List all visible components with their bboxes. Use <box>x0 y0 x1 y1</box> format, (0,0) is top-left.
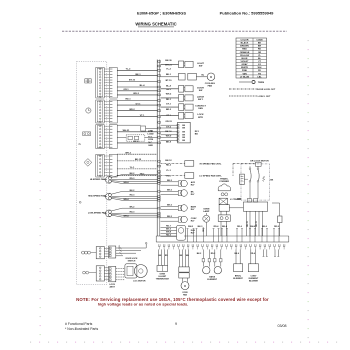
convection fan motor <box>182 278 184 282</box>
svg-text:BR: BR <box>258 46 262 48</box>
svg-text:BR-2: BR-2 <box>129 109 135 111</box>
svg-text:BK-1: BK-1 <box>135 74 141 76</box>
relay AUX RLY <box>161 181 179 183</box>
svg-text:Publication No.: 5995559949: Publication No.: 5995559949 <box>220 11 275 16</box>
oven door switch <box>161 88 179 90</box>
svg-text:high voltage leads or as noted: high voltage leads or as noted on specia… <box>98 302 189 307</box>
svg-text:YL-2: YL-2 <box>166 69 171 71</box>
fan harness wires <box>111 175 157 178</box>
main harness bus rails <box>156 60 158 237</box>
svg-text:FORMER: FORMER <box>219 181 229 183</box>
wire color code legend table <box>236 38 267 78</box>
svg-text:WH-21: WH-21 <box>123 130 131 132</box>
svg-text:E30M-65GP ; E30MH65GS: E30M-65GP ; E30MH65GS <box>137 11 186 16</box>
svg-text:BD: BD <box>195 133 199 135</box>
svg-text:LOW-SPEED FAN: LOW-SPEED FAN <box>88 211 107 214</box>
mid speed fan plug <box>104 196 107 198</box>
harness wires board to bus <box>117 69 157 71</box>
svg-text:N.O.: N.O. <box>148 136 153 138</box>
svg-text:VT-1: VT-1 <box>140 115 145 117</box>
connector P3 inner header <box>96 125 104 149</box>
broil element <box>234 264 243 272</box>
door latch switch <box>161 63 179 65</box>
left margin dotted crop line <box>40 28 41 29</box>
svg-text:GY: GY <box>258 64 262 66</box>
connector P4 inner header <box>96 154 104 177</box>
svg-text:ORANGE: ORANGE <box>240 51 250 54</box>
legend low voltage circuit linetype <box>229 95 257 97</box>
svg-text:LT BLUE: LT BLUE <box>240 76 250 78</box>
svg-text:BK: BK <box>182 140 185 142</box>
svg-text:M: M <box>210 75 213 79</box>
convection element <box>248 264 258 272</box>
svg-text:BT-10: BT-10 <box>129 80 136 82</box>
hi speed fan control <box>161 162 185 164</box>
svg-text:BK-2: BK-2 <box>197 253 202 255</box>
svg-text:THERMOSTAT: THERMOSTAT <box>156 278 170 281</box>
svg-text:BK-12: BK-12 <box>165 160 172 162</box>
svg-text:TN: TN <box>258 73 261 75</box>
svg-text:# Functional Parts: # Functional Parts <box>65 322 93 326</box>
svg-text:YL-1: YL-1 <box>166 170 171 172</box>
svg-text:RD: RD <box>165 255 168 257</box>
connector P1 inner header <box>96 67 104 98</box>
svg-text:ASSY: ASSY <box>109 285 115 288</box>
svg-text:COLOR: COLOR <box>241 39 249 41</box>
svg-text:YELLOW: YELLOW <box>240 55 250 57</box>
svg-text:RD-4: RD-4 <box>214 225 220 228</box>
svg-text:RD-8: RD-8 <box>274 226 280 228</box>
svg-text:BROWN: BROWN <box>240 46 249 48</box>
svg-text:GY-1: GY-1 <box>136 103 142 105</box>
svg-text:GY-1: GY-1 <box>166 104 172 106</box>
svg-text:GRAY: GRAY <box>241 63 248 66</box>
svg-text:WH: WH <box>186 255 190 257</box>
svg-text:BK: BK <box>182 137 185 139</box>
svg-text:YL-1: YL-1 <box>130 167 136 169</box>
svg-text:BK-8: BK-8 <box>133 141 139 143</box>
svg-text:OR-1: OR-1 <box>123 89 129 91</box>
svg-text:BK-1: BK-1 <box>166 74 172 76</box>
svg-text:FAN: FAN <box>198 107 203 110</box>
low speed fan plug <box>104 212 107 214</box>
lock motor body <box>243 202 267 211</box>
svg-text:HI SPEED FAN CNTL: HI SPEED FAN CNTL <box>200 162 222 165</box>
capacitor <box>240 174 245 184</box>
svg-text:BK: BK <box>270 180 273 182</box>
svg-text:WH-8: WH-8 <box>166 232 172 234</box>
svg-text:LO SPEED FAN CNTL: LO SPEED FAN CNTL <box>199 174 222 177</box>
svg-text:RLY: RLY <box>191 185 195 187</box>
svg-text:PK: PK <box>258 70 261 72</box>
svg-text:BK: BK <box>182 128 185 130</box>
cooling fan motor <box>161 76 179 78</box>
svg-text:BK-11: BK-11 <box>247 221 249 226</box>
svg-text:BK: BK <box>182 125 185 127</box>
relay BATH RLY <box>161 205 179 207</box>
svg-text:BK-30: BK-30 <box>165 60 172 62</box>
door lock motor <box>125 264 137 278</box>
terminal pin row <box>159 244 161 246</box>
svg-text:WH-4: WH-4 <box>123 198 129 201</box>
board connector lower B <box>96 266 104 281</box>
hi speed fan plug <box>104 179 107 181</box>
board pair icon <box>83 271 86 274</box>
svg-text:M: M <box>184 284 187 288</box>
svg-text:9: 9 <box>175 322 177 326</box>
transformer output plug <box>220 211 222 215</box>
svg-text:WH-6: WH-6 <box>250 226 256 228</box>
svg-text:BLUE: BLUE <box>242 58 248 60</box>
svg-text:TN-1: TN-1 <box>166 176 172 178</box>
board connector lower A <box>96 247 104 259</box>
svg-text:SW 1: SW 1 <box>198 99 204 101</box>
svg-text:LOAD: LOAD <box>147 132 154 135</box>
svg-text:WHITE: WHITE <box>241 67 249 69</box>
svg-text:WH-31: WH-31 <box>165 64 172 66</box>
svg-text:COM: COM <box>148 139 153 141</box>
svg-text:03/08: 03/08 <box>278 324 287 328</box>
svg-text:BK-6: BK-6 <box>262 226 268 228</box>
door lock interlock block <box>141 126 146 131</box>
svg-text:MTR: MTR <box>198 117 203 119</box>
connector P2 outer plug <box>109 100 117 123</box>
legend door lock circuit linetype <box>229 88 257 90</box>
svg-text:YL-2: YL-2 <box>126 69 132 71</box>
connector P4 outer plug <box>109 154 117 177</box>
svg-text:DOOR LOCK CKT: DOOR LOCK CKT <box>257 89 276 91</box>
svg-text:TAN: TAN <box>242 72 247 75</box>
fuse block <box>179 249 181 267</box>
svg-text:PINK: PINK <box>242 70 248 72</box>
svg-text:BL: BL <box>201 74 204 76</box>
door lock connector lower <box>109 266 116 281</box>
svg-text:WH-4: WH-4 <box>123 215 129 218</box>
svg-text:LINE: LINE <box>148 131 153 133</box>
svg-text:OR: OR <box>258 52 262 54</box>
relay BK RLY <box>161 190 179 192</box>
svg-text:RD-6: RD-6 <box>237 226 243 228</box>
svg-text:RLY: RLY <box>191 209 195 211</box>
svg-text:BLACK: BLACK <box>241 42 249 45</box>
right margin dotted crop line <box>308 40 309 41</box>
control board dashed outline <box>77 61 107 284</box>
svg-text:* Non-Illustrated Parts: * Non-Illustrated Parts <box>65 327 98 331</box>
legend terminal symbol <box>239 81 251 83</box>
svg-text:VT-1: VT-1 <box>166 115 171 117</box>
svg-text:SW: SW <box>199 90 203 92</box>
svg-text:MID-SPEED FAN: MID-SPEED FAN <box>88 195 106 198</box>
svg-text:BK: BK <box>258 43 262 45</box>
lo speed fan control <box>161 175 185 177</box>
svg-text:BL-4: BL-4 <box>166 84 172 87</box>
svg-text:BT-10: BT-10 <box>166 80 173 82</box>
svg-text:RD-2: RD-2 <box>211 253 216 255</box>
svg-text:RED: RED <box>242 49 247 51</box>
svg-text:LOW V. CKT: LOW V. CKT <box>258 96 271 98</box>
bus pins with wire codes <box>158 61 161 63</box>
svg-text:BK-11: BK-11 <box>256 221 258 226</box>
svg-text:BK-12: BK-12 <box>135 159 142 161</box>
svg-text:BR-2: BR-2 <box>166 109 172 111</box>
latch switch 2 <box>161 106 179 108</box>
svg-text:RLY: RLY <box>191 194 195 196</box>
svg-text:SWITCH: SWITCH <box>128 260 136 262</box>
svg-text:LOC MOTOR: LOC MOTOR <box>133 281 146 283</box>
terminal drops <box>263 249 265 256</box>
svg-text:RD-1: RD-1 <box>125 99 131 101</box>
svg-text:HI-SPEED FAN: HI-SPEED FAN <box>90 178 106 181</box>
relay board connector <box>178 122 191 143</box>
svg-text:OR-33: OR-33 <box>165 121 172 123</box>
svg-text:TDM: TDM <box>237 198 242 200</box>
connector P2 inner header <box>96 100 104 123</box>
bottom margin dotted crop line <box>30 342 31 343</box>
svg-text:OR-1: OR-1 <box>166 89 172 91</box>
svg-text:CODE: CODE <box>256 39 263 41</box>
svg-text:GND: GND <box>148 145 153 147</box>
svg-text:RD-2: RD-2 <box>166 165 172 167</box>
svg-text:TERM: TERM <box>258 82 264 84</box>
latch connecting wires <box>229 207 243 209</box>
power terminal strip <box>156 241 289 243</box>
svg-text:BLOWER: BLOWER <box>249 280 258 282</box>
bake elements <box>202 249 204 258</box>
svg-text:WIRING SCHEMATIC: WIRING SCHEMATIC <box>135 21 176 26</box>
svg-text:WH: WH <box>258 67 262 69</box>
svg-text:SW: SW <box>199 65 203 67</box>
hi-limit thermostats <box>158 249 160 265</box>
display icon <box>85 79 88 83</box>
svg-text:WH-3: WH-3 <box>188 226 194 228</box>
svg-text:VIOLET: VIOLET <box>241 61 250 63</box>
svg-text:WH-2: WH-2 <box>166 93 172 95</box>
svg-text:N.C.: N.C. <box>148 142 153 144</box>
svg-text:75: 75 <box>78 144 81 146</box>
svg-text:BK: BK <box>182 132 185 134</box>
svg-text:RLY: RLY <box>191 221 195 223</box>
svg-text:WH-4: WH-4 <box>123 181 129 184</box>
probe icon <box>84 159 92 167</box>
svg-text:RD-6: RD-6 <box>251 253 256 255</box>
svg-text:RD-1: RD-1 <box>166 99 172 101</box>
svg-text:ELEMENT: ELEMENT <box>233 278 243 280</box>
keypad icon <box>83 132 91 136</box>
connector P1 outer plug <box>109 67 117 98</box>
svg-text:RD: RD <box>258 49 262 51</box>
svg-text:BL-4: BL-4 <box>140 84 146 87</box>
door lock connector upper <box>109 246 116 258</box>
auxiliary lock wire <box>279 203 281 216</box>
svg-text:BK-8: BK-8 <box>166 141 172 143</box>
svg-text:BK-4: BK-4 <box>222 225 228 228</box>
header dashed rule <box>62 30 287 32</box>
relay CONV RLY <box>161 217 179 219</box>
board coil icon <box>82 251 85 254</box>
connector P3 outer plug <box>109 125 117 149</box>
svg-text:WH-2: WH-2 <box>125 152 131 154</box>
board small node <box>79 201 81 203</box>
latch switch 1 <box>161 97 179 99</box>
svg-text:COIL: COIL <box>119 245 121 249</box>
relay DLB <box>161 226 177 228</box>
svg-text:BK-6: BK-6 <box>235 253 240 255</box>
svg-text:WH-2: WH-2 <box>133 93 139 95</box>
svg-text:LATCH: LATCH <box>197 95 205 98</box>
svg-text:FAN: FAN <box>208 85 213 88</box>
svg-text:RD-5: RD-5 <box>203 227 205 231</box>
svg-text:ELEMENT: ELEMENT <box>207 279 217 281</box>
clock icon <box>86 108 91 113</box>
meat probe jack <box>161 115 179 117</box>
door lock switch block <box>241 164 270 200</box>
svg-text:LAMP: LAMP <box>203 210 210 213</box>
svg-text:LBL: LBL <box>257 76 262 78</box>
svg-text:RLY: RLY <box>191 233 195 235</box>
